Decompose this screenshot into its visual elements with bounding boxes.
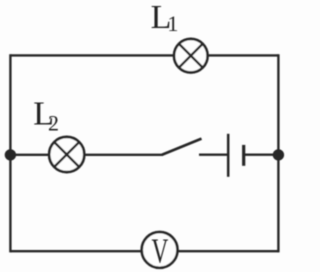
node left junction [5,149,16,160]
wire L2 to switch [84,154,163,156]
node right junction [273,149,284,160]
wire top-right segment [207,54,278,56]
svg-text:1: 1 [167,11,178,36]
lamp L1 [174,39,208,73]
switch S (open blade) [162,139,202,155]
wire bottom-right segment [178,250,278,252]
svg-text:V: V [152,232,169,271]
lamp L2 [49,137,84,172]
wire middle: dot to L2 [10,154,50,156]
wire right vertical [277,54,279,252]
wire switch to battery [199,153,227,155]
wire top-left segment [10,54,174,56]
voltmeter V [142,232,178,268]
wire bottom-left segment [10,250,141,252]
wire left vertical [9,54,11,252]
svg-text:2: 2 [48,110,59,135]
wire battery to right node [245,153,279,155]
battery cell B [228,134,244,177]
